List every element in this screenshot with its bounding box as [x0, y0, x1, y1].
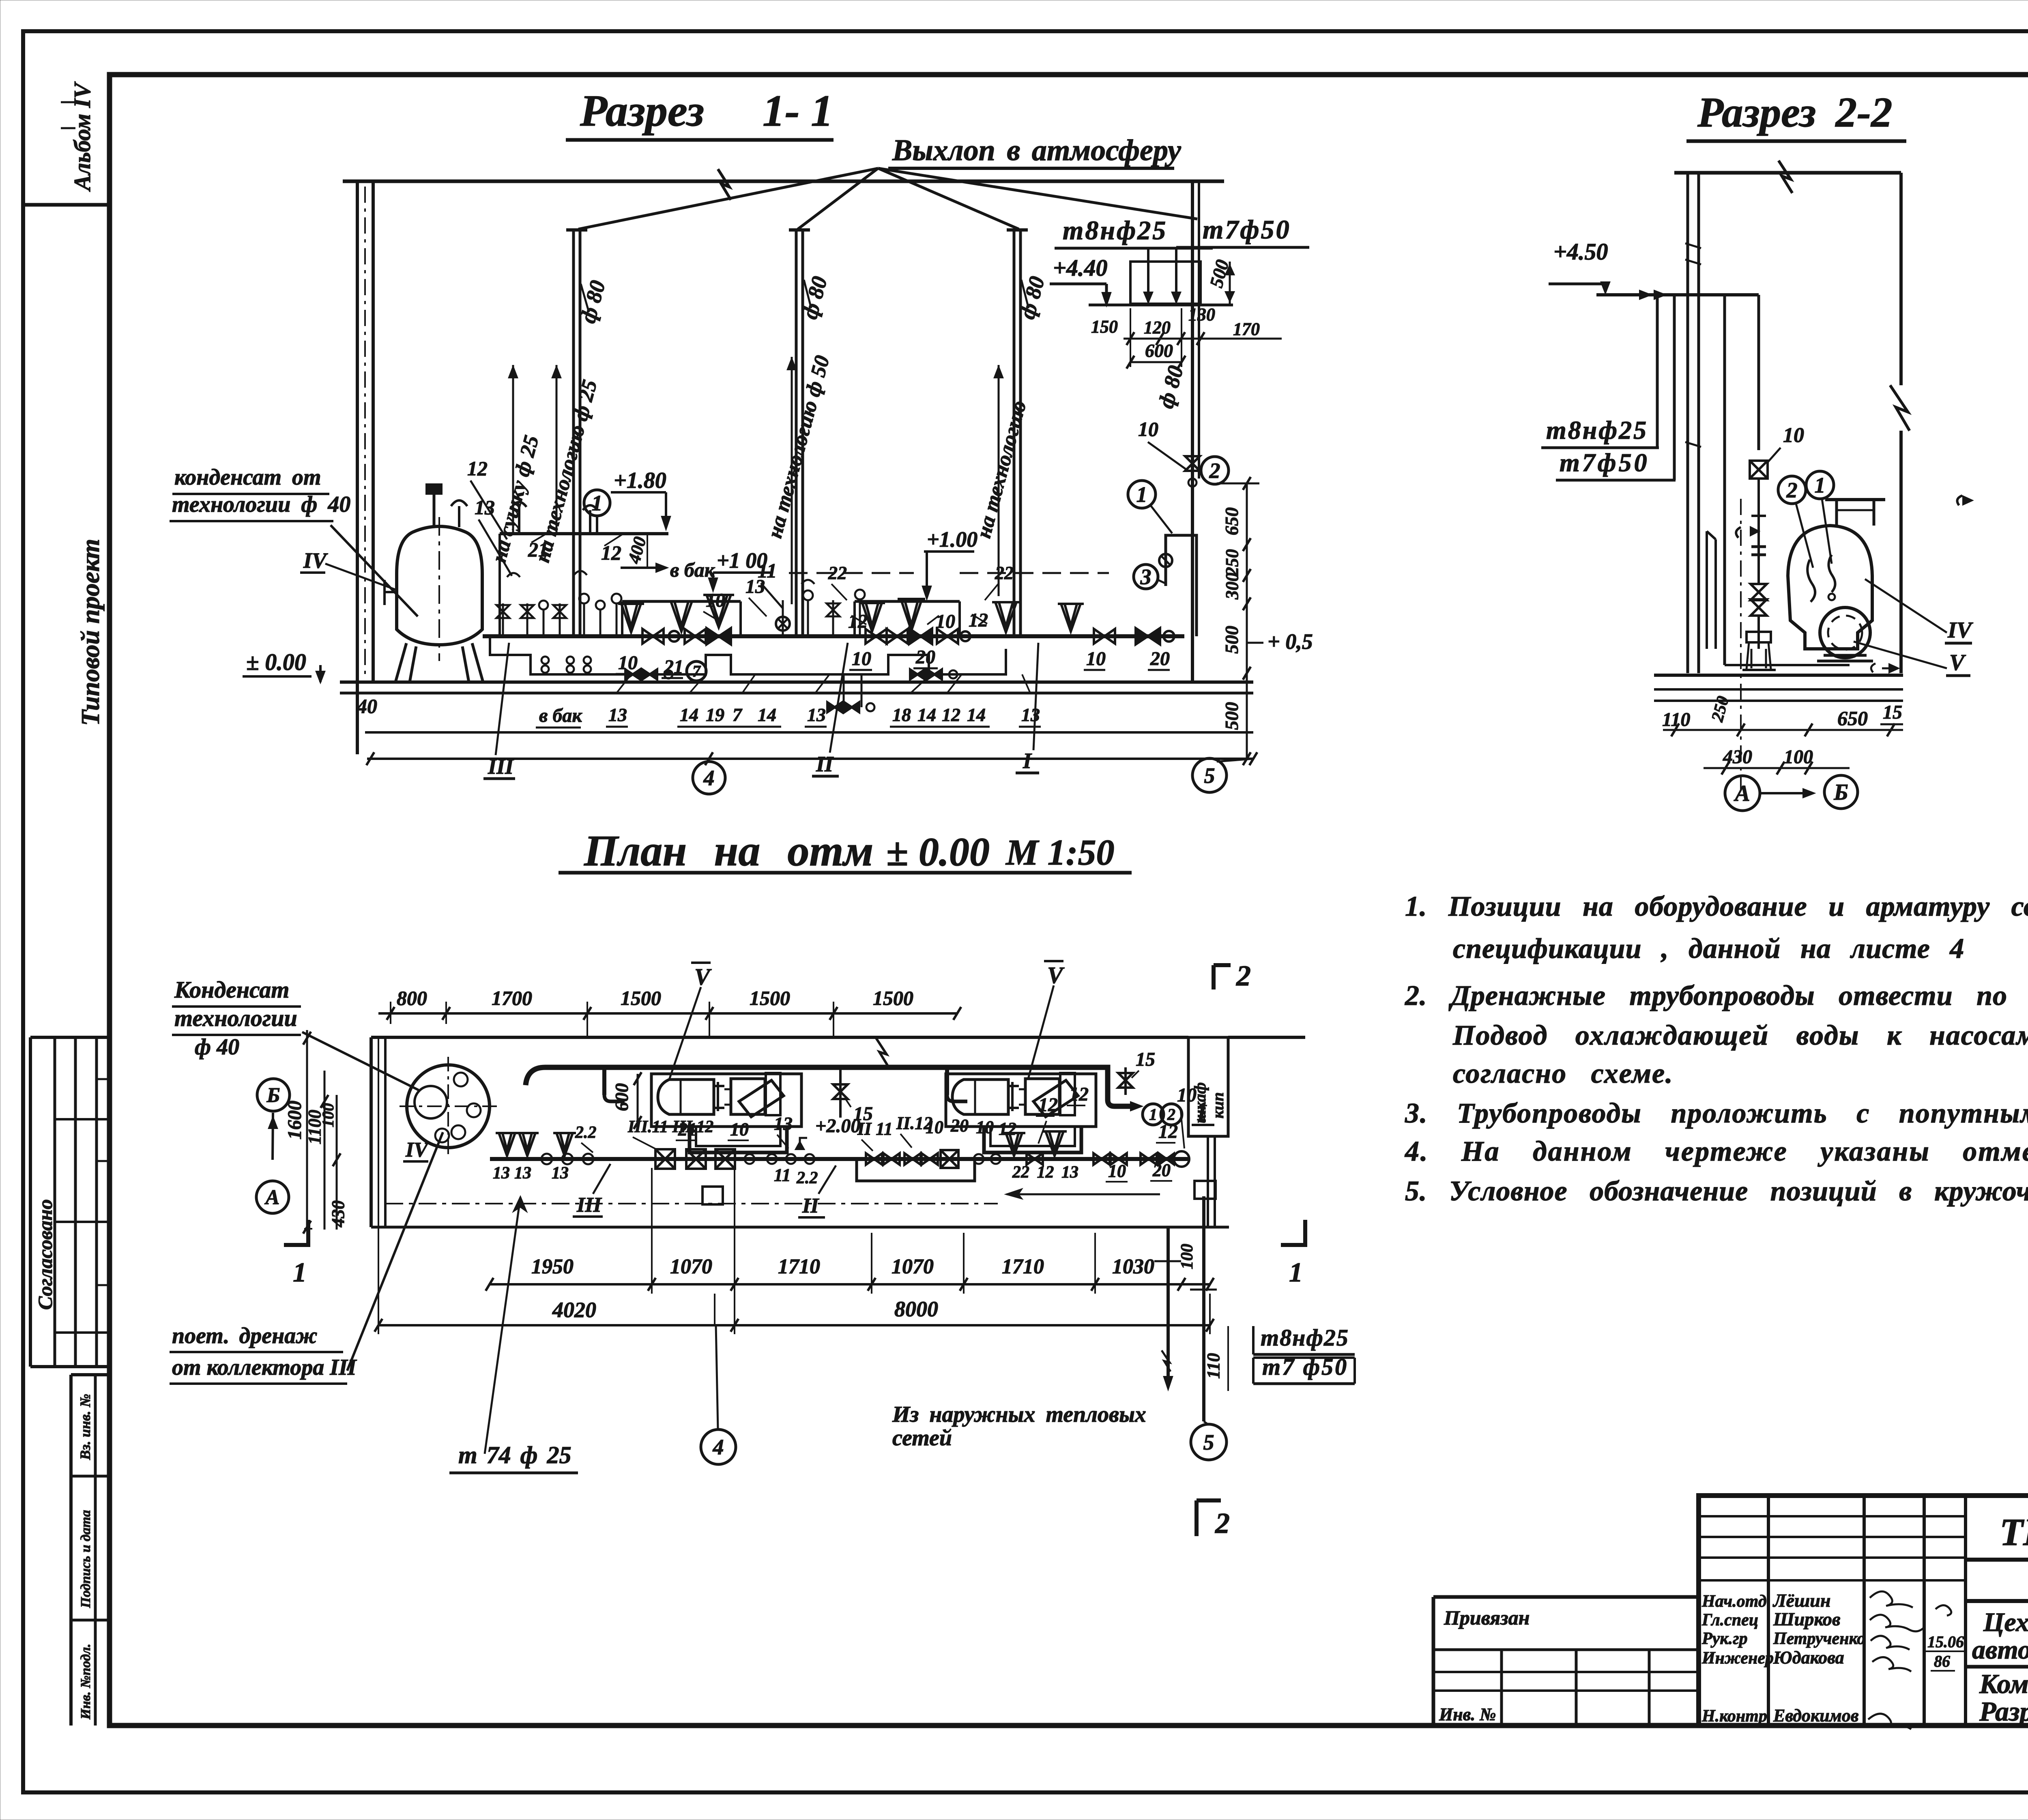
svg-text:от коллектора III: от коллектора III — [172, 1355, 357, 1380]
svg-text:1030: 1030 — [1112, 1255, 1154, 1278]
svg-text:III.11 III.12: III.11 III.12 — [627, 1118, 713, 1136]
s22 riser T8N — [1656, 295, 1659, 448]
svg-text:IV: IV — [1947, 618, 1974, 643]
svg-text:22 12 13: 22 12 13 — [1012, 1163, 1078, 1182]
plan label V pump1 — [669, 963, 712, 1080]
note 2 line 1 — [1405, 980, 2028, 1011]
svg-text:Б: Б — [266, 1084, 280, 1107]
svg-text:1. Позиции на оборудование: 1. Позиции на оборудование и арматуру со… — [1405, 891, 2028, 922]
svg-text:500: 500 — [1221, 626, 1242, 654]
svg-text:в бак: в бак — [539, 705, 582, 726]
label 10 right low — [1084, 648, 1106, 670]
plan axis arrow segment — [1007, 1189, 1160, 1198]
s22 dim 15 — [1880, 702, 1903, 724]
plan t74 leader — [485, 1197, 526, 1454]
svg-text:12: 12 — [969, 610, 988, 631]
circled 2 right top — [1201, 457, 1229, 484]
svg-text:430: 430 — [1723, 746, 1752, 768]
plan dim 1500b — [750, 987, 790, 1009]
svg-text:Петрученко: Петрученко — [1773, 1629, 1865, 1648]
svg-text:4020: 4020 — [552, 1298, 596, 1322]
plan lbl II-11 — [857, 1119, 893, 1151]
plan dim 1710b — [1002, 1255, 1044, 1278]
plan label V pump2 — [1028, 961, 1065, 1079]
svg-text:10: 10 — [730, 1119, 749, 1140]
svg-text:V: V — [1047, 962, 1065, 988]
plan dim 1600 — [284, 1101, 305, 1140]
label 21 collector — [528, 532, 549, 561]
right riser pipe — [1185, 456, 1200, 535]
title block grid — [1699, 1496, 2028, 1726]
plan lbl 12 funnel right — [1067, 1084, 1089, 1105]
exhaust pipe riser 2 — [789, 230, 810, 636]
svg-text:Согласовано: Согласовано — [34, 1199, 56, 1310]
svg-text:II: II — [816, 752, 834, 776]
funnels group 2 — [859, 599, 925, 631]
plan right pipe ticks — [1154, 1261, 1217, 1290]
plan right pipe A — [1162, 1227, 1172, 1389]
plan circles mid — [745, 1154, 814, 1164]
collector +1.80 header — [500, 534, 668, 636]
svg-text:120: 120 — [1144, 318, 1171, 337]
label T7f50 top — [1176, 215, 1309, 247]
s22 pump circle V — [1817, 607, 1873, 661]
floor line 1 — [340, 680, 1253, 684]
s22 riser T7 — [1673, 295, 1676, 480]
svg-text:1500: 1500 — [621, 987, 661, 1009]
label v bak lower — [536, 705, 582, 728]
dashed collector line — [789, 572, 1109, 574]
plan label T8N right — [1253, 1324, 1355, 1354]
svg-text:+2.00: +2.00 — [815, 1115, 860, 1137]
svg-text:4: 4 — [713, 1435, 724, 1459]
svg-text:спецификации , данной на ли: спецификации , данной на листе 4 — [1453, 933, 1964, 964]
plan room bottom wall — [371, 1226, 1229, 1229]
plan top dim line — [378, 1002, 961, 1038]
signature column roles — [1701, 1592, 1774, 1726]
svg-text:Подпись и дата: Подпись и дата — [78, 1510, 93, 1608]
s22 circled 2 — [1778, 476, 1813, 568]
s22 floor arrow right — [1871, 663, 1898, 672]
plan room inner break — [876, 1038, 888, 1067]
dim 300 — [1222, 573, 1242, 600]
roman III section — [483, 643, 515, 779]
label IV vessel — [300, 548, 397, 590]
right elbow pipe — [1159, 535, 1197, 636]
s22 top pipe run — [1596, 291, 1759, 299]
pos labels group 3 — [805, 674, 829, 727]
svg-text:13: 13 — [493, 1164, 510, 1183]
plan dim 1950 — [531, 1255, 574, 1278]
dim 250 — [1222, 549, 1242, 576]
svg-text:14: 14 — [758, 704, 776, 725]
svg-text:Лёшин: Лёшин — [1772, 1590, 1830, 1611]
s22 pipe mid fittings — [1736, 479, 1767, 616]
label IV s22 — [1865, 579, 1974, 643]
soglasovano table grid — [30, 1037, 110, 1367]
plan lbl 10 below right — [1106, 1161, 1128, 1182]
svg-text:11: 11 — [774, 1165, 791, 1185]
svg-text:8000: 8000 — [894, 1297, 938, 1321]
svg-text:2: 2 — [1215, 1507, 1230, 1539]
label 40 left floor — [357, 695, 377, 717]
plan lbl below 13a — [493, 1164, 569, 1183]
svg-text:+1.80: +1.80 — [614, 468, 666, 493]
svg-text:т7ф50: т7ф50 — [1203, 215, 1291, 245]
plan dim 1500c — [873, 987, 913, 1009]
thin riser na tekhnologiyu 3 — [995, 365, 1003, 596]
right wall line — [1192, 181, 1199, 682]
svg-text:Вз. инв. №: Вз. инв. № — [77, 1394, 93, 1460]
svg-text:13: 13 — [745, 576, 765, 597]
svg-text:А: А — [264, 1186, 280, 1209]
s22 dim 430 — [1723, 746, 1752, 768]
svg-text:13: 13 — [1021, 704, 1040, 725]
label na tekhnologiyu f50 — [763, 353, 834, 541]
condensate leader — [331, 525, 418, 616]
label na tekhnologiyu f25 — [531, 378, 602, 565]
mini detail pipes — [1055, 247, 1233, 305]
label 10 under manifold left — [616, 652, 638, 674]
vessel IV section — [397, 526, 482, 645]
label 12 mid — [848, 611, 868, 632]
svg-text:1: 1 — [293, 1257, 307, 1288]
svg-text:Компоновка. План.: Компоновка. План. — [1979, 1668, 2028, 1699]
svg-text:1: 1 — [592, 491, 603, 515]
note 2 line 3 — [1453, 1058, 1674, 1089]
svg-text:Альбом IV: Альбом IV — [69, 81, 95, 192]
svg-text:Инв. №: Инв. № — [1439, 1704, 1496, 1724]
label f80 riser3 — [1015, 274, 1049, 322]
label v bak upper — [621, 558, 715, 581]
gate valve right pair — [1094, 628, 1174, 644]
circled pos 1 upper — [584, 490, 610, 534]
mini detail dim 600 — [1126, 308, 1185, 369]
svg-text:+4.50: +4.50 — [1553, 238, 1608, 265]
funnels group 1 — [618, 601, 695, 632]
s22 right boundary — [1890, 173, 1910, 673]
privyazan box — [1433, 1597, 1699, 1726]
svg-text:19: 19 — [706, 704, 724, 725]
svg-text:86: 86 — [1934, 1652, 1950, 1670]
svg-text:12: 12 — [1038, 1094, 1058, 1116]
tipovoy proekt label — [76, 539, 105, 726]
svg-text:т7ф50: т7ф50 — [1560, 448, 1650, 477]
pos labels group 4 — [890, 674, 990, 727]
svg-text:100: 100 — [319, 1103, 337, 1127]
plan external nets label — [892, 1402, 1146, 1451]
plan pump drop 1 — [604, 1067, 625, 1101]
label 12 upper-left — [467, 457, 507, 539]
label na sushku f25 — [488, 433, 544, 565]
svg-text:4. На данном чертеже указа: 4. На данном чертеже указаны отметки низ… — [1404, 1136, 2028, 1167]
svg-text:III: III — [576, 1193, 602, 1217]
object name line2 — [1972, 1635, 2028, 1665]
album IV label — [61, 81, 95, 192]
svg-text:250: 250 — [1222, 549, 1242, 576]
svg-text:1600: 1600 — [284, 1101, 305, 1140]
svg-text:1950: 1950 — [531, 1255, 574, 1278]
elev +4.50 mark — [1549, 238, 1609, 293]
plan lbl 22-12-13 below — [1012, 1163, 1078, 1182]
plan bowtie pair right — [1093, 1153, 1127, 1165]
s22 pump arrow — [1957, 496, 1972, 505]
svg-text:2.2: 2.2 — [796, 1169, 818, 1187]
svg-text:конденсат от: конденсат от — [174, 465, 321, 490]
doc number TP 405-7-4.86 TC — [2000, 1510, 2028, 1554]
label 11 — [758, 559, 783, 608]
plan dim 600 rot — [611, 1072, 642, 1129]
svg-text:18: 18 — [892, 704, 911, 725]
plan dim 1030 — [1112, 1255, 1154, 1278]
svg-text:14: 14 — [917, 704, 936, 725]
plan pump unit 2 motor — [952, 1080, 1025, 1114]
plan xvalve 3 — [715, 1149, 735, 1169]
exhaust to atmosphere label — [888, 134, 1182, 168]
s22 dim line 1 — [1663, 723, 1903, 736]
plan axis B bubble — [257, 1079, 290, 1111]
plan shkaf KIP box — [1188, 1037, 1228, 1136]
plan lbl II-12 — [896, 1113, 932, 1148]
plan roman III — [573, 1164, 610, 1217]
svg-text:согласно схеме.: согласно схеме. — [1453, 1058, 1674, 1089]
plan dim 8000 — [894, 1297, 938, 1321]
label 22 mid-right — [985, 562, 1014, 600]
plan pump drop 2 — [947, 1067, 967, 1101]
svg-text:22: 22 — [995, 562, 1014, 583]
plan pump unit 2 pump body — [1025, 1073, 1078, 1117]
plan vessel IV axes — [400, 1057, 498, 1156]
s22 circled 1 — [1806, 471, 1834, 564]
plan dim 1500a — [621, 987, 661, 1009]
svg-text:21: 21 — [528, 538, 548, 561]
svg-text:автомобильных шин: автомобильных шин — [1972, 1635, 2028, 1665]
dim 500b — [1221, 702, 1242, 730]
label T8Nf25 top — [1055, 216, 1213, 248]
thin riser na tekhnologiyu 25 — [552, 365, 561, 534]
svg-text:4: 4 — [703, 766, 715, 790]
gate valve pair A — [642, 629, 706, 644]
s22 vessel internals — [1807, 555, 1835, 602]
plan section mark 2 top — [1214, 959, 1251, 992]
vessel IV nozzles — [385, 485, 467, 605]
mini detail dims row — [1091, 305, 1282, 345]
svg-text:15: 15 — [1136, 1049, 1155, 1070]
svg-text:10: 10 — [852, 648, 871, 670]
svg-text:12: 12 — [1069, 1084, 1089, 1105]
label 13 upper-left — [475, 496, 512, 576]
plan circles right — [974, 1154, 1001, 1164]
svg-text:М 1:50: М 1:50 — [1005, 833, 1115, 873]
svg-text:IV: IV — [405, 1138, 430, 1161]
plan dim 430 — [328, 1200, 348, 1228]
plan drain leader — [347, 1132, 443, 1371]
plan funnel row left — [496, 1133, 576, 1156]
plan label IV — [403, 1138, 430, 1161]
label na tekhnologiyu 3 — [972, 398, 1031, 541]
plan lbl 12 fun — [1036, 1094, 1058, 1144]
svg-text:12: 12 — [467, 457, 488, 480]
svg-text:650: 650 — [1837, 707, 1868, 730]
plan lbl 21 — [676, 1119, 697, 1140]
pos labels group 5 — [1019, 674, 1041, 727]
plan lbl I sect — [1192, 1100, 1214, 1125]
label V s22 — [1854, 642, 1970, 676]
svg-text:± 0.00: ± 0.00 — [246, 649, 306, 675]
label 22 mid-left — [828, 562, 847, 600]
plan axis arrow — [269, 1113, 277, 1160]
manifold main line — [483, 634, 1184, 638]
svg-text:100: 100 — [1178, 1244, 1197, 1269]
svg-text:1: 1 — [1149, 1105, 1157, 1124]
label 400 dim — [624, 534, 650, 568]
svg-text:технологии ф 40: технологии ф 40 — [172, 492, 350, 517]
section 1-1 title — [566, 86, 834, 140]
svg-text:100: 100 — [1784, 746, 1813, 768]
svg-text:V: V — [1949, 650, 1966, 675]
svg-text:10: 10 — [1086, 648, 1106, 670]
exhaust header diagonals — [578, 168, 1197, 229]
svg-text:Разрез: Разрез — [580, 86, 704, 135]
svg-text:150: 150 — [1091, 317, 1118, 337]
label f80 riser2 — [797, 274, 832, 322]
s22 dim line 2 — [1704, 762, 1850, 775]
note 5 — [1405, 1176, 2028, 1207]
plan end circle — [1174, 1151, 1189, 1167]
podpis i data label — [78, 1510, 93, 1608]
label f80 right — [1154, 363, 1188, 411]
left wall column — [357, 181, 373, 754]
circled 4 bottom — [693, 759, 725, 794]
svg-text:Нач.отд: Нач.отд — [1701, 1592, 1767, 1611]
plan lbl below 11 22 — [774, 1165, 818, 1187]
label 10 funnel1 — [703, 590, 725, 622]
svg-text:Юдакова: Юдакова — [1773, 1648, 1844, 1668]
svg-text:II: II — [802, 1194, 819, 1217]
lower dimension line — [366, 752, 1257, 765]
svg-text:2. Дренажные трубопроводы о: 2. Дренажные трубопроводы отвести по мес… — [1405, 980, 2028, 1011]
s22 axis bubbles — [1725, 775, 1858, 811]
exhaust pipe riser 3 — [1007, 230, 1028, 636]
plan bypass loop — [857, 1159, 975, 1181]
right dim chain line — [1217, 477, 1259, 765]
plan condensate label — [172, 977, 301, 1060]
svg-text:12: 12 — [999, 1119, 1016, 1139]
plan lbl III-11 III-12 — [627, 1118, 713, 1150]
note 2 line 2 — [1452, 1020, 2028, 1051]
plan dim 100 — [319, 1103, 337, 1127]
s22 wall column — [1685, 173, 1701, 673]
exhaust pipe riser 1 — [566, 230, 587, 636]
svg-text:500: 500 — [1221, 702, 1242, 730]
vessel IV centerline — [438, 517, 440, 661]
plan pump2 discharge pipe — [984, 1127, 1081, 1153]
svg-text:1710: 1710 — [1002, 1255, 1044, 1278]
inv n label bottom — [1439, 1704, 1496, 1724]
plan pump unit 1 pump body — [731, 1073, 784, 1117]
inv n podl label — [78, 1644, 93, 1720]
privyazan label — [1444, 1606, 1530, 1629]
s22 pipe drop pair — [1725, 295, 1850, 665]
floor line 3 — [365, 731, 1253, 734]
plan main pipe line — [490, 1157, 1188, 1161]
svg-text:+ 0,5: + 0,5 — [1267, 629, 1313, 654]
s22 dim 250 — [1708, 694, 1733, 724]
s22 axis line — [1740, 499, 1742, 791]
svg-text:1500: 1500 — [873, 987, 913, 1009]
plan lbl 10-20-10-12 row — [926, 1116, 1016, 1139]
svg-text:Гл.спец: Гл.спец — [1701, 1611, 1758, 1629]
svg-text:14: 14 — [680, 704, 698, 725]
elevation pm0.00 — [243, 649, 324, 682]
control valve with funnel — [703, 595, 734, 644]
elev +1.00 right — [923, 527, 977, 599]
plan dim 4020 — [552, 1298, 596, 1322]
plan roman II — [798, 1165, 836, 1217]
svg-text:ТП 405 - 7- 4.86: ТП 405 - 7- 4.86 — [2000, 1511, 2028, 1554]
svg-text:IV: IV — [303, 548, 328, 573]
svg-text:130: 130 — [1188, 305, 1215, 324]
svg-text:кип: кип — [1209, 1092, 1227, 1118]
note 3 — [1405, 1098, 2028, 1129]
plan lbl 12 r — [1156, 1121, 1178, 1143]
extra cluster stubs — [539, 601, 605, 636]
svg-text:Разрез 2-2: Разрез 2-2 — [1697, 88, 1893, 136]
svg-text:Ширков: Ширков — [1773, 1609, 1841, 1629]
ceiling line — [343, 169, 1224, 200]
valve cluster left stubs — [496, 571, 621, 636]
left strip divider under Album — [23, 203, 110, 207]
svg-text:+1.00: +1.00 — [927, 527, 977, 552]
signature dates — [1926, 1605, 1964, 1671]
plan circled 4 — [701, 1294, 736, 1464]
double xvalve group — [866, 629, 970, 644]
plan bowtie pair 2 — [904, 1153, 938, 1165]
plan elev +2.00 — [796, 1115, 860, 1150]
sub header right — [855, 601, 960, 636]
roman I section — [1016, 643, 1039, 773]
labels 10 20 manifold — [849, 646, 938, 670]
svg-text:1: 1 — [1136, 482, 1147, 507]
plan dim 1070b — [892, 1255, 934, 1278]
svg-text:Инженер: Инженер — [1701, 1649, 1774, 1668]
svg-text:650: 650 — [1221, 507, 1242, 535]
svg-text:шкаф: шкаф — [1191, 1082, 1209, 1123]
svg-text:2.2: 2.2 — [575, 1123, 597, 1142]
svg-text:III: III — [488, 754, 514, 779]
condensate feed label — [170, 465, 350, 521]
s22 vessel frame — [1825, 500, 1885, 526]
vessel IV legs — [395, 643, 483, 682]
svg-text:20: 20 — [915, 646, 935, 668]
plan lbl 22 — [575, 1123, 597, 1153]
object name line1 — [1983, 1608, 2028, 1637]
svg-text:Разрезы 1-1; 2-2: Разрезы 1-1; 2-2 — [1979, 1696, 2028, 1727]
plan small circles left — [541, 1154, 593, 1164]
s22 floor lines — [1654, 675, 1903, 701]
svg-text:13: 13 — [514, 1164, 531, 1183]
svg-text:+4.40: +4.40 — [1053, 255, 1108, 281]
svg-text:Б: Б — [1833, 780, 1848, 805]
svg-text:15.06: 15.06 — [1927, 1633, 1964, 1651]
svg-text:± 0.00: ± 0.00 — [886, 829, 990, 874]
svg-text:Привязан: Привязан — [1444, 1606, 1530, 1629]
svg-text:2: 2 — [1236, 959, 1251, 992]
sheet title kompnovka — [1979, 1668, 2028, 1699]
svg-text:600: 600 — [1145, 340, 1173, 361]
signatures scribbles — [1868, 1591, 1924, 1729]
plan small box mid — [702, 1187, 723, 1204]
